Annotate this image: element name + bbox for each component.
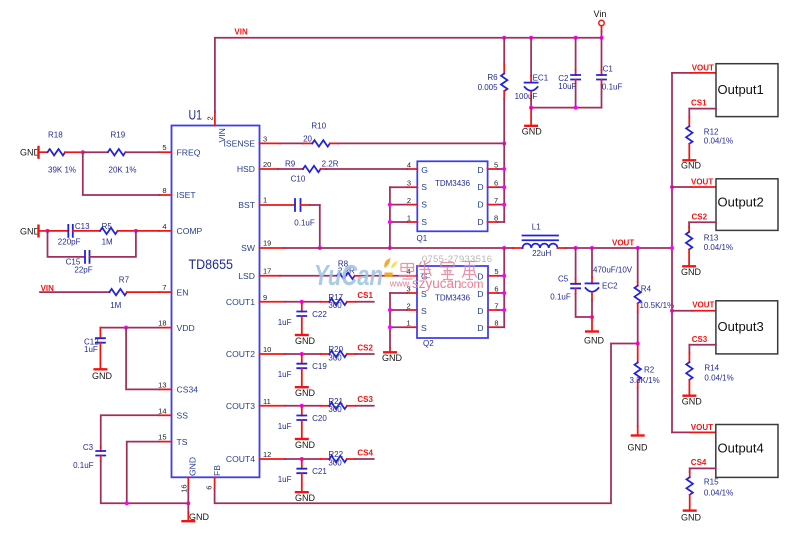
svg-text:300: 300 — [328, 353, 342, 362]
pin 14 SS — [158, 406, 188, 420]
wire COUT4 row — [285, 458, 321, 460]
svg-text:Output2: Output2 — [718, 194, 764, 209]
svg-text:D: D — [477, 182, 483, 192]
svg-text:R4: R4 — [641, 284, 652, 293]
svg-text:CS2: CS2 — [692, 213, 708, 222]
svg-text:0.04/1%: 0.04/1% — [704, 137, 733, 146]
svg-text:EC1: EC1 — [533, 74, 549, 83]
wire CS1 stub — [356, 301, 374, 303]
wire Q2 source bus — [389, 293, 391, 348]
wire cap bottoms — [531, 107, 601, 109]
svg-text:2: 2 — [407, 301, 411, 310]
resistor R4 — [635, 248, 675, 344]
svg-text:0.1uF: 0.1uF — [294, 219, 315, 228]
wire VDD row — [100, 327, 159, 329]
svg-text:8: 8 — [494, 213, 498, 222]
node FREQ/ISET junction — [81, 150, 85, 154]
wire Q1 source bus — [389, 187, 391, 248]
svg-text:1uF: 1uF — [278, 318, 292, 327]
svg-text:18: 18 — [158, 319, 166, 328]
pin 7 EN — [160, 283, 189, 297]
capacitor C10 — [291, 175, 320, 228]
ground COMP left — [20, 226, 48, 237]
node FB divider junction — [636, 342, 640, 346]
pin 17 LSD — [238, 266, 280, 281]
capacitor C20 — [278, 406, 328, 438]
pin 19 SW — [241, 239, 285, 254]
node Vin terminal — [594, 9, 607, 38]
svg-text:C19: C19 — [312, 362, 327, 371]
svg-text:R19: R19 — [111, 130, 126, 139]
pin 2 Q1 S — [390, 196, 417, 205]
pin 6 Q1 D — [488, 179, 505, 188]
node Q1 S2 junction — [388, 203, 392, 207]
resistor R17 — [321, 293, 356, 310]
svg-text:C5: C5 — [558, 275, 569, 284]
svg-text:HSD: HSD — [237, 164, 255, 174]
ground EC1 — [522, 108, 543, 137]
svg-text:0.1uF: 0.1uF — [602, 82, 623, 91]
capacitor C13 — [48, 222, 101, 247]
svg-text:GND: GND — [92, 371, 113, 381]
pin 8 Q1 D — [488, 213, 505, 222]
node VDD junction — [124, 326, 128, 330]
node Q1 D6 junction — [502, 185, 506, 189]
resistor R14 — [686, 345, 734, 395]
ground C20 — [295, 439, 316, 450]
transistor Q1 — [417, 161, 488, 243]
wire CS34 branch — [126, 328, 159, 390]
svg-text:Output4: Output4 — [718, 441, 764, 456]
svg-text:COUT2: COUT2 — [226, 349, 255, 359]
svg-text:TD8655: TD8655 — [189, 257, 234, 272]
ground C22 — [295, 335, 316, 346]
wire ISET branch — [83, 152, 160, 195]
svg-text:GND: GND — [682, 396, 703, 406]
svg-text:C20: C20 — [312, 414, 327, 423]
svg-text:GND: GND — [295, 336, 316, 346]
node Q1 D5 junction — [502, 167, 506, 171]
pin 9 COUT1 — [226, 293, 285, 307]
capacitor C12 — [84, 328, 105, 369]
pin 4 Q1 G — [407, 160, 417, 169]
svg-text:S: S — [421, 323, 427, 333]
svg-text:TDM3436: TDM3436 — [435, 293, 471, 302]
svg-text:VOUT: VOUT — [692, 63, 714, 72]
resistor R7 — [109, 275, 159, 310]
resistor R12 — [686, 109, 733, 160]
wire VOUT to Output3 — [672, 301, 716, 311]
pin 7 Q1 D — [488, 196, 505, 205]
pin 6 FB (bottom) — [204, 465, 222, 490]
pin 3 Q2 S — [390, 284, 417, 293]
svg-text:S: S — [421, 200, 427, 210]
svg-text:19: 19 — [263, 239, 271, 248]
wire CS1 to Output1 — [689, 98, 716, 108]
svg-text:C3: C3 — [83, 443, 94, 452]
svg-text:VOUT: VOUT — [612, 238, 634, 247]
svg-text:Output3: Output3 — [718, 319, 764, 334]
svg-text:C21: C21 — [312, 467, 327, 476]
svg-text:FREQ: FREQ — [177, 147, 201, 157]
svg-text:10.5K/1%: 10.5K/1% — [640, 301, 675, 310]
svg-text:D: D — [477, 217, 483, 227]
svg-text:Vin: Vin — [594, 9, 607, 19]
svg-text:VOUT: VOUT — [692, 301, 714, 310]
ground C12 — [92, 369, 113, 381]
wire VOUT to Output2 — [672, 177, 716, 187]
node bus/VOUT2 junction — [670, 185, 674, 189]
svg-text:100uF: 100uF — [515, 92, 538, 101]
capacitor C3 — [73, 443, 105, 470]
pin 1 Q1 S — [390, 213, 417, 222]
svg-text:0.04/1%: 0.04/1% — [704, 243, 733, 252]
svg-text:D: D — [477, 165, 483, 175]
node COUT3 junction — [300, 404, 304, 408]
svg-text:1uF: 1uF — [278, 370, 292, 379]
junction at C1/Vin — [600, 36, 604, 40]
capacitor C22 — [278, 302, 328, 334]
svg-text:300: 300 — [328, 405, 342, 414]
svg-text:R13: R13 — [704, 233, 719, 242]
wire R10 to D-bus — [338, 142, 504, 144]
svg-text:S: S — [421, 182, 427, 192]
resistor R20 — [321, 345, 356, 362]
resistor R10 — [303, 122, 338, 147]
svg-text:6: 6 — [494, 179, 498, 188]
ground R14 — [682, 396, 703, 407]
node GND pin junction — [186, 501, 190, 505]
node EC2 junction — [590, 246, 594, 250]
svg-text:R15: R15 — [704, 478, 719, 487]
node COMP junction left — [46, 229, 50, 233]
pin 3 Q1 S — [390, 179, 417, 188]
svg-text:1M: 1M — [102, 238, 113, 247]
pin 16 GND (bottom) — [180, 457, 198, 493]
svg-text:CS4: CS4 — [357, 448, 373, 457]
pin 6 Q2 D — [488, 284, 504, 293]
node SW/Q1-S junction — [388, 246, 392, 250]
node Q1 D7 junction — [502, 203, 506, 207]
capacitor EC2 — [586, 248, 633, 317]
svg-text:Q2: Q2 — [423, 339, 434, 348]
svg-text:0.04/1%: 0.04/1% — [704, 488, 733, 497]
node bus/VOUT3 junction — [670, 309, 674, 313]
svg-text:C1: C1 — [603, 65, 614, 74]
svg-text:GND: GND — [584, 335, 605, 345]
Output3 box — [716, 301, 778, 354]
pin 18 VDD — [158, 319, 195, 333]
node EC2 bottom junction — [590, 315, 594, 319]
svg-text:3: 3 — [263, 134, 267, 143]
node Q2 D7 junction — [502, 308, 506, 312]
svg-text:10uF: 10uF — [558, 82, 576, 91]
wire R8 to Q2 gate — [362, 275, 407, 277]
node TS/GND junction — [125, 501, 129, 505]
svg-text:39K 1%: 39K 1% — [48, 165, 76, 174]
svg-text:1: 1 — [407, 319, 411, 328]
op-amp U1 — [172, 108, 260, 478]
wire VOUT bus — [671, 73, 673, 433]
junction at C2 bottom — [574, 106, 578, 110]
pin 11 COUT3 — [226, 397, 285, 411]
capacitor C15 loop — [48, 231, 136, 274]
resistor R21 — [321, 397, 356, 414]
svg-text:.com: .com — [458, 277, 484, 291]
svg-text:GND: GND — [681, 512, 702, 522]
node Q2 S2 junction — [388, 308, 392, 312]
resistor R8 — [337, 260, 362, 279]
wire Q2 drain bus — [503, 248, 505, 327]
wire CS2 stub — [356, 353, 374, 355]
svg-text:470uF/10V: 470uF/10V — [593, 265, 633, 274]
wire ISENSE to R10 — [280, 142, 303, 144]
svg-text:U1: U1 — [189, 108, 203, 123]
svg-text:1: 1 — [263, 195, 267, 204]
svg-text:GND: GND — [681, 267, 702, 277]
svg-text:7: 7 — [494, 196, 498, 205]
node R6/ISENSE junction — [502, 141, 506, 145]
pin 4 COMP — [160, 222, 203, 236]
svg-text:13: 13 — [158, 380, 166, 389]
pin 8 ISET — [160, 186, 197, 200]
wire FB net — [215, 344, 638, 504]
pin 1 Q2 S — [390, 319, 417, 328]
svg-text:VDD: VDD — [177, 323, 195, 333]
svg-text:3.3K/1%: 3.3K/1% — [630, 376, 660, 385]
svg-text:CS1: CS1 — [691, 98, 707, 107]
svg-text:5: 5 — [494, 267, 498, 276]
svg-text:0.04/1%: 0.04/1% — [704, 373, 733, 382]
svg-text:COUT3: COUT3 — [226, 401, 255, 411]
svg-text:1: 1 — [407, 213, 411, 222]
svg-text:FB: FB — [212, 465, 222, 476]
svg-text:3: 3 — [407, 179, 411, 188]
svg-text:CS4: CS4 — [691, 458, 707, 467]
junction at C2 — [574, 36, 578, 40]
svg-text:0755-27933516: 0755-27933516 — [422, 254, 492, 265]
svg-text:CS3: CS3 — [357, 395, 373, 404]
wire GND pin drop — [187, 489, 189, 503]
pin 5 Q1 D — [488, 160, 505, 169]
svg-text:20: 20 — [263, 160, 271, 169]
svg-text:GND: GND — [681, 161, 702, 171]
svg-text:VIN: VIN — [234, 28, 248, 37]
pin 20 HSD — [237, 160, 278, 174]
svg-text:R7: R7 — [119, 275, 130, 284]
node Q2 S1 junction — [388, 325, 392, 329]
ground C21 — [295, 492, 316, 503]
wire COUT2 row — [285, 353, 321, 355]
svg-text:S: S — [421, 217, 427, 227]
wire CS4 to Output4 — [690, 458, 716, 468]
svg-text:GND: GND — [187, 457, 197, 476]
svg-text:D: D — [477, 306, 483, 316]
svg-text:EC2: EC2 — [602, 281, 618, 290]
wire TS row — [127, 442, 160, 504]
wire CS3 stub — [356, 405, 374, 407]
svg-text:BST: BST — [238, 200, 255, 210]
svg-text:R5: R5 — [102, 222, 113, 231]
svg-text:EN: EN — [177, 287, 189, 297]
svg-text:ISET: ISET — [177, 190, 197, 200]
node COUT4 junction — [300, 457, 304, 461]
svg-text:R18: R18 — [48, 130, 63, 139]
pin 7 Q2 D — [488, 301, 504, 310]
resistor R13 — [686, 222, 733, 265]
svg-text:szyucan: szyucan — [412, 276, 462, 291]
wire CS3 to Output3 — [689, 335, 716, 345]
node SW/Q2-D junction — [502, 246, 506, 250]
wire COUT3 row — [285, 405, 321, 407]
svg-text:1uF: 1uF — [84, 345, 98, 354]
Output2 box — [716, 179, 778, 231]
svg-text:0.1uF: 0.1uF — [550, 293, 571, 302]
wire EN row — [40, 291, 109, 293]
svg-text:5: 5 — [162, 143, 166, 152]
pin 5 FREQ — [160, 143, 201, 157]
wire COUT1 row — [285, 301, 321, 303]
svg-text:CS1: CS1 — [357, 291, 373, 300]
node Q1 S1 junction — [388, 220, 392, 224]
svg-text:4: 4 — [162, 222, 166, 231]
svg-text:YuCan: YuCan — [314, 260, 383, 292]
svg-text:COMP: COMP — [177, 226, 203, 236]
svg-text:G: G — [421, 165, 428, 175]
svg-text:7: 7 — [162, 283, 166, 292]
wire VOUT to Output4 — [672, 423, 716, 432]
watermark — [314, 254, 492, 292]
svg-text:VOUT: VOUT — [691, 177, 713, 186]
svg-text:C13: C13 — [75, 222, 90, 231]
ground R15 — [681, 511, 702, 523]
svg-text:7: 7 — [494, 301, 498, 310]
pin 2 VIN (top) — [205, 112, 227, 143]
wire Q1 drain bus — [503, 143, 505, 222]
ground Q2 sources — [382, 348, 403, 363]
ground FREQ left — [20, 147, 48, 158]
ground U1 GND pin — [183, 503, 210, 522]
capacitor C2 — [558, 38, 580, 108]
svg-text:220pF: 220pF — [58, 238, 81, 247]
svg-text:20: 20 — [303, 134, 312, 143]
resistor R15 — [687, 468, 734, 509]
capacitor C19 — [278, 354, 328, 386]
ground R13 — [681, 266, 702, 277]
svg-text:D: D — [477, 323, 483, 333]
ground EC2 — [584, 317, 605, 345]
resistor R5 — [100, 222, 136, 247]
wire LSD to R8 — [280, 275, 337, 277]
svg-text:4: 4 — [407, 160, 411, 169]
wire SW row — [285, 247, 513, 249]
pin 12 COUT4 — [226, 450, 285, 464]
Output4 box — [716, 425, 778, 478]
capacitor C21 — [278, 459, 328, 491]
svg-text:SS: SS — [177, 411, 189, 421]
svg-text:TS: TS — [177, 437, 188, 447]
junction on top wire at R6 — [502, 36, 506, 40]
svg-text:9: 9 — [263, 293, 267, 302]
pin 15 TS — [158, 433, 188, 447]
svg-text:GND: GND — [295, 440, 316, 450]
resistor R6 — [478, 38, 508, 144]
svg-text:CS34: CS34 — [177, 385, 199, 395]
svg-text:0.005: 0.005 — [478, 83, 499, 92]
svg-text:1uF: 1uF — [278, 422, 292, 431]
svg-text:S: S — [421, 306, 427, 316]
node COUT2 junction — [300, 352, 304, 356]
node C5 junction — [574, 246, 578, 250]
wire CS4 stub — [356, 458, 374, 460]
junction at EC1 bottom — [529, 106, 533, 110]
svg-text:GND: GND — [295, 493, 316, 503]
svg-text:2.2R: 2.2R — [322, 160, 339, 169]
ground R12 — [681, 160, 702, 170]
svg-text:6: 6 — [494, 284, 498, 293]
wire HSD to R9 — [278, 168, 303, 170]
pin 3 ISENSE — [223, 134, 280, 148]
svg-text:14: 14 — [158, 406, 166, 415]
capacitor C5 — [550, 248, 592, 317]
pin 13 CS34 — [158, 380, 198, 394]
svg-text:ISENSE: ISENSE — [223, 139, 255, 149]
svg-text:8: 8 — [494, 319, 498, 328]
pin 10 COUT2 — [226, 345, 285, 359]
svg-text:D: D — [477, 200, 483, 210]
svg-text:6: 6 — [204, 486, 213, 490]
svg-text:COUT4: COUT4 — [226, 454, 255, 464]
wire junction to COMP pin — [136, 230, 160, 232]
resistor R2 — [630, 344, 660, 427]
svg-text:22pF: 22pF — [74, 265, 92, 274]
wire to R19 — [83, 151, 108, 153]
svg-text:16: 16 — [180, 484, 189, 492]
svg-text:VOUT: VOUT — [691, 423, 713, 432]
svg-text:1uF: 1uF — [278, 475, 292, 484]
svg-text:5: 5 — [494, 160, 498, 169]
capacitor EC1 — [515, 38, 549, 108]
svg-text:COUT1: COUT1 — [226, 297, 255, 307]
resistor R19 — [108, 130, 160, 174]
transistor Q2 — [417, 266, 488, 348]
svg-text:11: 11 — [263, 397, 271, 406]
svg-text:GND: GND — [295, 388, 316, 398]
svg-text:20K 1%: 20K 1% — [109, 165, 137, 174]
wire BST branch down to SW — [319, 205, 321, 248]
pin 1 BST — [238, 195, 295, 210]
svg-text:12: 12 — [263, 450, 271, 459]
svg-text:GND: GND — [189, 512, 210, 522]
svg-text:22uH: 22uH — [532, 249, 551, 258]
wire L1 to VOUT bus — [566, 247, 672, 249]
svg-text:CS2: CS2 — [357, 343, 373, 352]
svg-text:300: 300 — [328, 301, 342, 310]
svg-text:R9: R9 — [285, 160, 296, 169]
svg-text:8: 8 — [162, 186, 166, 195]
svg-text:Output1: Output1 — [718, 82, 764, 97]
svg-text:2: 2 — [407, 196, 411, 205]
ground C19 — [295, 387, 316, 398]
node R4 top junction — [636, 246, 640, 250]
node COMP junction right — [134, 229, 138, 233]
svg-text:TDM3436: TDM3436 — [435, 179, 471, 188]
node Q2 D5 junction — [502, 274, 506, 278]
svg-text:SW: SW — [241, 243, 256, 253]
svg-text:0.1uF: 0.1uF — [73, 461, 94, 470]
wire SS row — [101, 415, 160, 446]
svg-text:L1: L1 — [532, 223, 541, 232]
